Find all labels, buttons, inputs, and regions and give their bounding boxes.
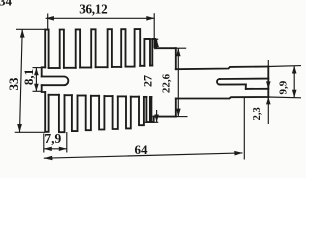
svg-text:33: 33 [6, 77, 21, 91]
svg-text:27: 27 [140, 75, 154, 87]
svg-text:8,1: 8,1 [21, 69, 36, 85]
svg-text:22,6: 22,6 [160, 73, 172, 93]
svg-text:64: 64 [135, 142, 149, 157]
svg-text:7,9: 7,9 [44, 131, 61, 146]
svg-text:34: 34 [0, 0, 13, 9]
svg-text:2,3: 2,3 [252, 107, 263, 120]
svg-text:9,9: 9,9 [277, 80, 289, 94]
svg-text:36,12: 36,12 [79, 1, 108, 16]
